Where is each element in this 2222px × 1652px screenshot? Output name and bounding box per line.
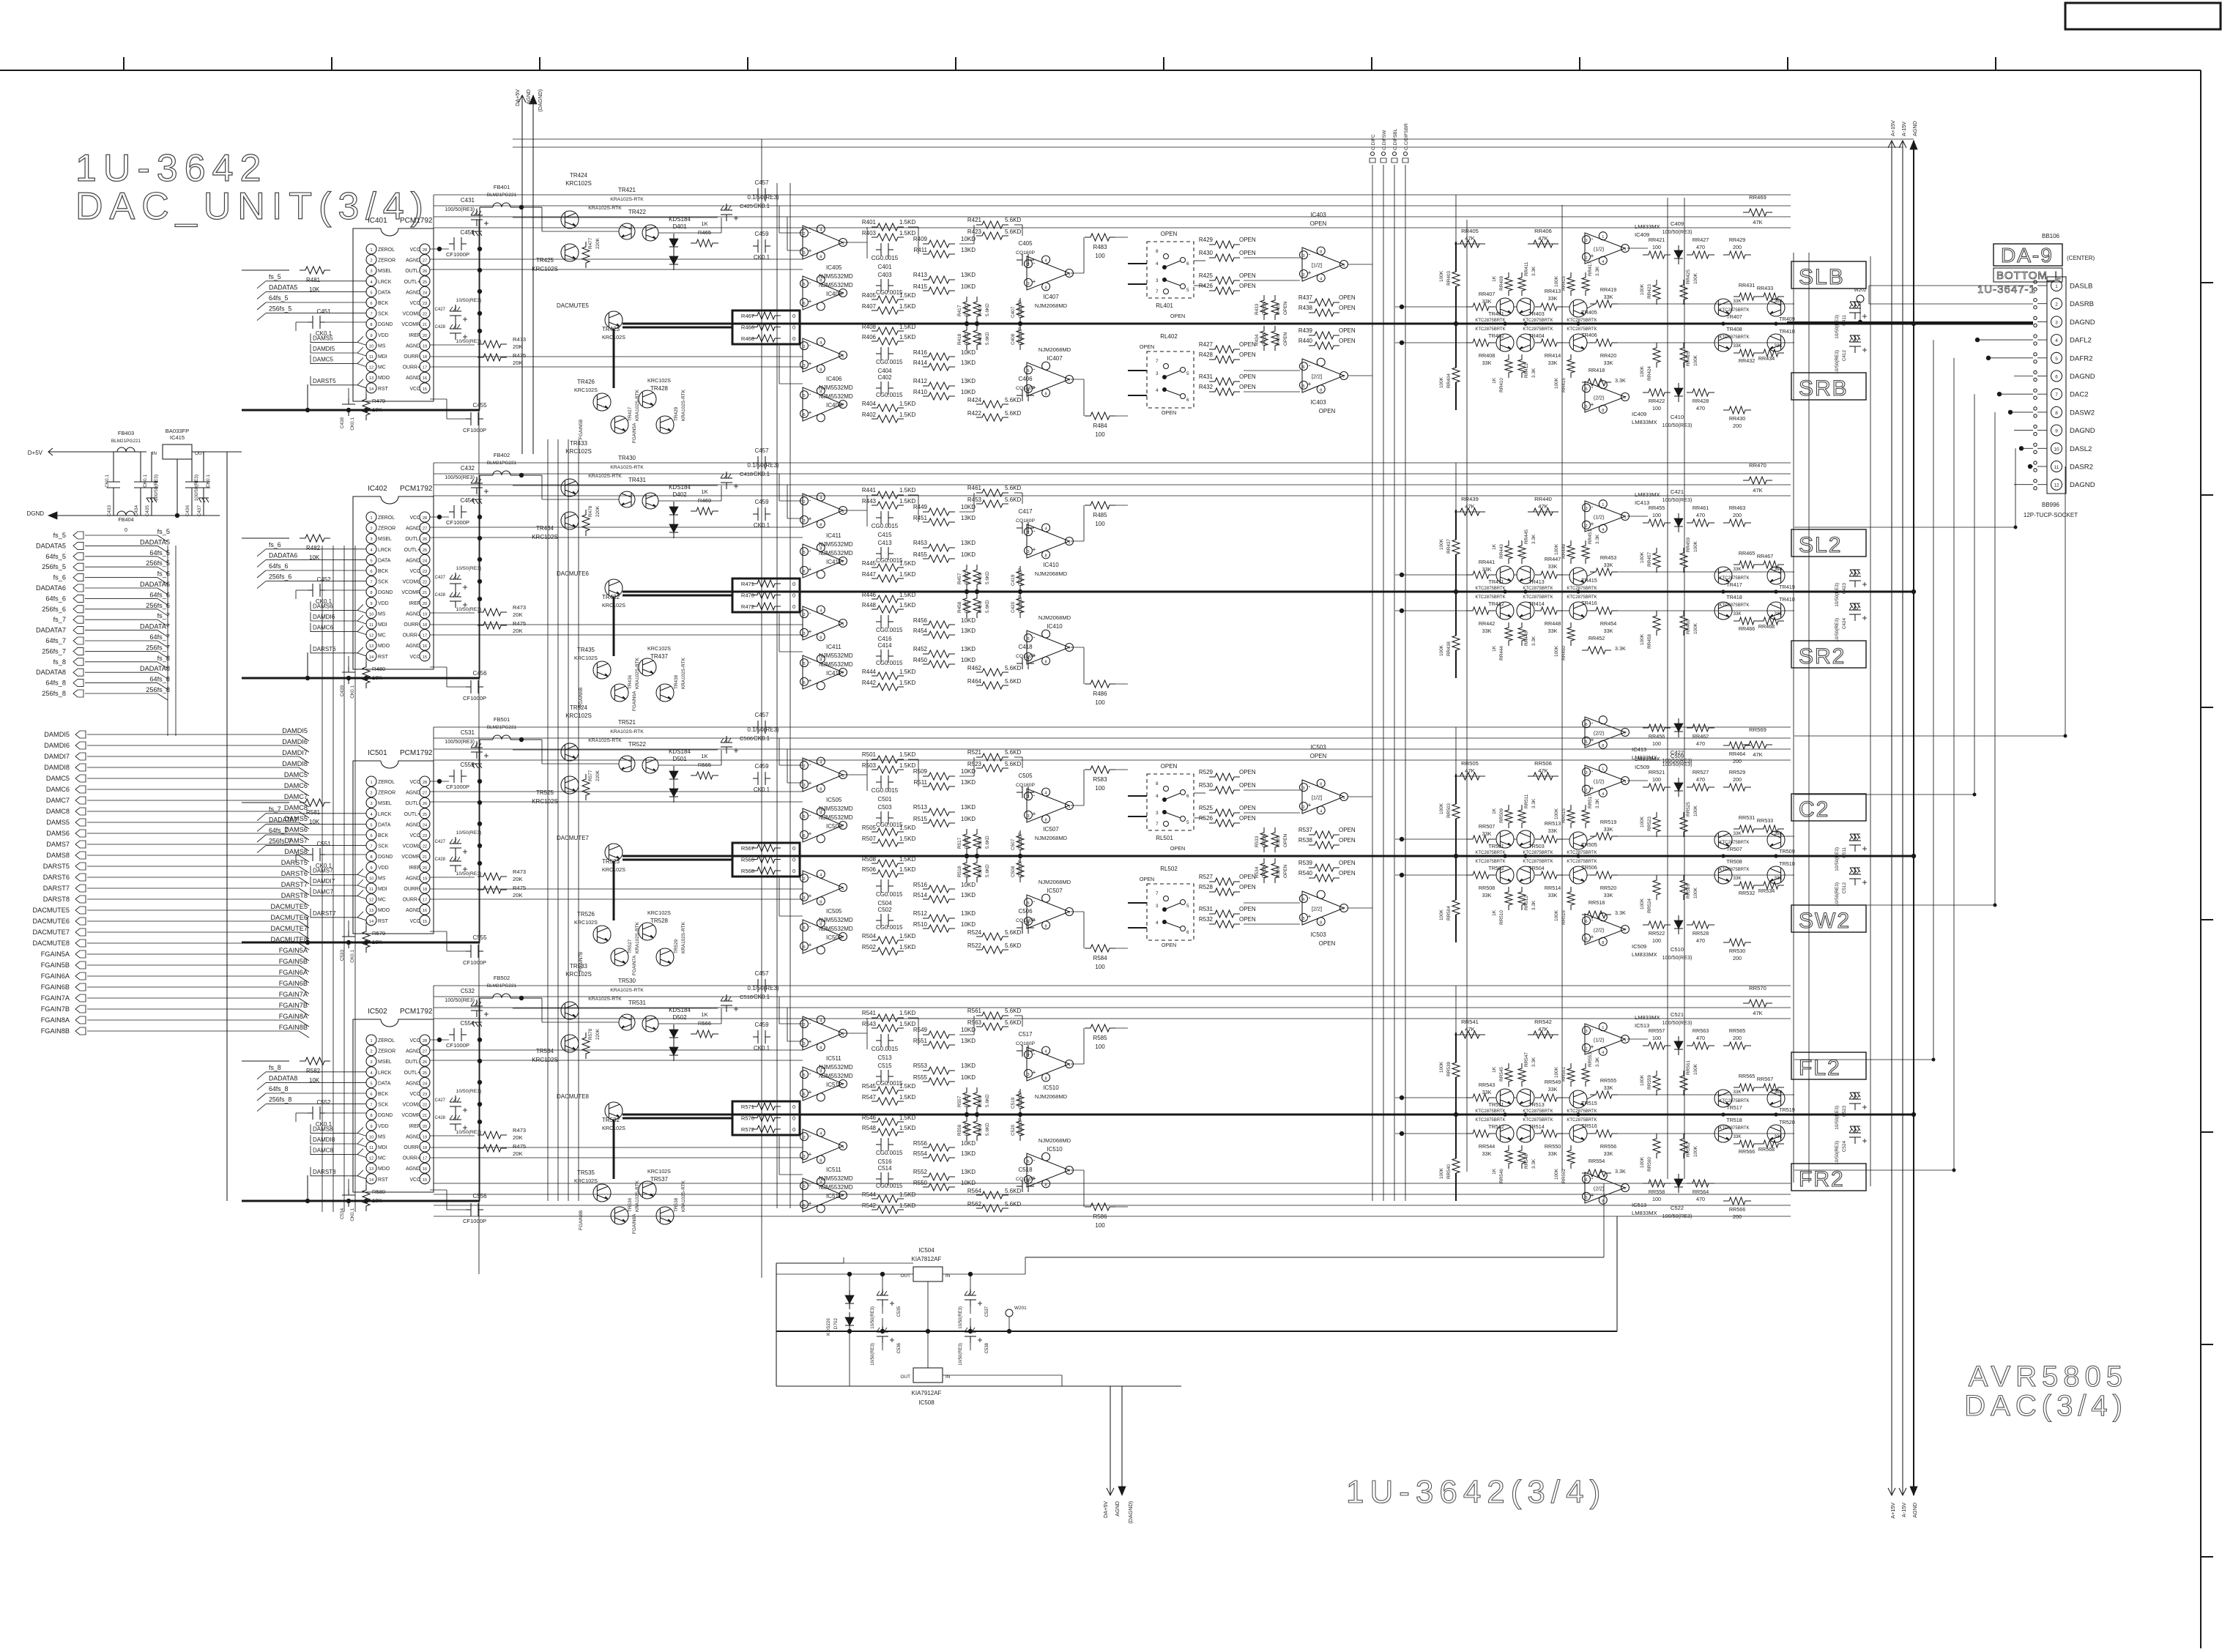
svg-text:R437: R437 (1298, 294, 1313, 301)
svg-text:4: 4 (1602, 1051, 1604, 1055)
svg-text:BCK: BCK (378, 569, 389, 574)
svg-text:100/50(RE3): 100/50(RE3) (445, 474, 475, 480)
svg-text:MC: MC (378, 633, 386, 639)
svg-text:RR508: RR508 (1479, 885, 1495, 891)
svg-text:R461: R461 (967, 485, 982, 491)
svg-text:RR505: RR505 (1461, 760, 1479, 767)
svg-text:R512: R512 (913, 910, 928, 917)
svg-text:5.6KD: 5.6KD (1005, 1008, 1021, 1014)
svg-text:10: 10 (369, 612, 374, 617)
svg-text:1.5KD: 1.5KD (899, 1125, 915, 1131)
svg-text:R462: R462 (967, 665, 982, 671)
svg-text:VCC: VCC (409, 919, 420, 924)
svg-text:FGAIN6B: FGAIN6B (279, 980, 308, 987)
svg-text:20K: 20K (513, 876, 523, 882)
svg-text:C502: C502 (877, 907, 892, 913)
svg-text:26: 26 (423, 802, 427, 806)
svg-text:6: 6 (2055, 375, 2058, 380)
svg-text:DACMUTE6: DACMUTE6 (270, 914, 308, 921)
svg-text:C420: C420 (1011, 601, 1016, 613)
svg-text:TR510: TR510 (1779, 860, 1795, 867)
svg-text:C551: C551 (316, 841, 331, 847)
svg-text:R540: R540 (1298, 870, 1313, 877)
svg-text:RR512: RR512 (1524, 896, 1529, 910)
svg-text:DAMDI8: DAMDI8 (44, 764, 70, 771)
svg-text:R403: R403 (862, 230, 877, 237)
svg-text:RR465: RR465 (1739, 550, 1755, 557)
svg-text:NJM2068MD: NJM2068MD (1038, 879, 1071, 885)
svg-text:BLM21PG221: BLM21PG221 (487, 461, 517, 466)
svg-text:3.3K: 3.3K (1595, 798, 1600, 808)
svg-text:TR524: TR524 (570, 704, 588, 711)
svg-text:TR502: TR502 (1488, 865, 1504, 871)
svg-text:CQ180P: CQ180P (1018, 1117, 1023, 1136)
svg-text:33K: 33K (1548, 628, 1558, 634)
svg-text:RR408: RR408 (1479, 352, 1495, 359)
svg-text:DACMUTE8: DACMUTE8 (32, 940, 70, 947)
svg-text:16: 16 (423, 644, 427, 649)
svg-text:0: 0 (792, 324, 795, 331)
svg-text:R473: R473 (513, 604, 526, 611)
svg-text:R458: R458 (957, 601, 962, 613)
svg-text:33K: 33K (1548, 1086, 1558, 1093)
svg-text:OURR+: OURR+ (403, 633, 420, 639)
svg-text:-: - (809, 874, 811, 881)
svg-text:CF1000P: CF1000P (463, 427, 486, 434)
svg-text:22: 22 (423, 581, 427, 585)
svg-text:FGAIN7B: FGAIN7B (279, 1002, 308, 1009)
svg-text:64fs_6: 64fs_6 (269, 562, 289, 570)
svg-text:1: 1 (1342, 796, 1345, 800)
svg-text:10KD: 10KD (961, 283, 976, 290)
svg-text:-: - (809, 341, 811, 349)
svg-text:8: 8 (370, 855, 372, 860)
svg-text:DAMC5: DAMC5 (46, 775, 70, 782)
svg-text:LM833MX: LM833MX (1632, 419, 1657, 425)
svg-text:2: 2 (370, 792, 372, 796)
svg-text:C428: C428 (435, 857, 446, 862)
svg-text:23: 23 (423, 302, 427, 306)
svg-text:5.6KD: 5.6KD (985, 1123, 990, 1136)
svg-text:RR440: RR440 (1534, 496, 1552, 502)
svg-text:6: 6 (803, 413, 805, 417)
svg-text:DAMS8: DAMS8 (284, 848, 308, 855)
svg-text:8: 8 (820, 255, 822, 259)
svg-text:FGAIN5B: FGAIN5B (579, 420, 584, 439)
svg-text:KTC2875BRTK: KTC2875BRTK (1719, 335, 1749, 340)
svg-text:256fs_7: 256fs_7 (42, 647, 66, 655)
svg-text:C2: C2 (1799, 797, 1829, 822)
svg-text:R451: R451 (913, 515, 928, 521)
svg-text:TR537: TR537 (650, 1176, 669, 1183)
svg-text:0: 0 (792, 1104, 795, 1110)
svg-text:20: 20 (423, 1125, 427, 1129)
svg-text:R563: R563 (967, 1019, 982, 1026)
svg-text:3: 3 (370, 802, 372, 806)
svg-text:DAMDI5: DAMDI5 (44, 731, 70, 738)
svg-text:MDO: MDO (378, 908, 390, 913)
svg-text:-: - (809, 1019, 811, 1027)
svg-text:470: 470 (1696, 1035, 1705, 1041)
svg-text:12: 12 (2054, 483, 2059, 488)
svg-text:DGND: DGND (26, 510, 44, 517)
svg-text:AGND: AGND (406, 1134, 420, 1139)
svg-text:10/50(RE3): 10/50(RE3) (456, 1130, 482, 1135)
svg-text:KRC102S: KRC102S (532, 1057, 558, 1063)
svg-text:DAMDI8: DAMDI8 (282, 760, 308, 767)
svg-text:RR420: RR420 (1600, 352, 1616, 359)
svg-text:-: - (809, 811, 811, 819)
svg-text:R525: R525 (1199, 805, 1214, 811)
svg-text:DAGND: DAGND (2070, 427, 2095, 435)
svg-text:-: - (1309, 250, 1311, 258)
svg-text:CK0.1: CK0.1 (350, 685, 355, 699)
svg-text:R579: R579 (372, 930, 385, 937)
svg-text:2: 2 (803, 232, 805, 237)
svg-text:1.5KD: 1.5KD (899, 680, 915, 686)
svg-text:C432: C432 (461, 465, 475, 472)
svg-text:1.5KD: 1.5KD (899, 1191, 915, 1198)
svg-text:RR421: RR421 (1649, 237, 1665, 243)
svg-text:4: 4 (820, 874, 822, 878)
svg-text:100: 100 (1652, 1196, 1661, 1202)
svg-text:TR536: TR536 (628, 1197, 633, 1212)
svg-text:KRC102S: KRC102S (565, 448, 592, 455)
svg-text:KTC2875BRTK: KTC2875BRTK (1567, 587, 1597, 591)
svg-text:20K: 20K (513, 1150, 523, 1157)
svg-text:R460: R460 (978, 601, 983, 613)
svg-text:RR415: RR415 (1561, 276, 1567, 291)
svg-text:R552: R552 (913, 1169, 928, 1175)
svg-text:1.5KD: 1.5KD (899, 592, 915, 598)
svg-text:1.5KD: 1.5KD (899, 1115, 915, 1121)
svg-text:1.5KD: 1.5KD (899, 401, 915, 407)
svg-text:C410: C410 (1671, 414, 1684, 420)
svg-text:33K: 33K (1548, 360, 1558, 366)
svg-text:OPEN: OPEN (1339, 338, 1356, 344)
svg-text:R459: R459 (978, 573, 983, 584)
svg-text:C524: C524 (1842, 1141, 1847, 1153)
svg-text:RR418: RR418 (1589, 367, 1605, 373)
svg-text:OPEN: OPEN (1283, 332, 1288, 346)
svg-text:DAMDI6: DAMDI6 (282, 738, 308, 745)
svg-text:C436: C436 (185, 505, 190, 517)
svg-text:R481: R481 (306, 277, 321, 283)
svg-text:IC413: IC413 (1632, 746, 1646, 753)
svg-text:5: 5 (1186, 371, 1189, 376)
svg-text:DADATA7: DADATA7 (269, 816, 297, 823)
svg-text:LRCK: LRCK (378, 1071, 392, 1076)
svg-text:3.3K: 3.3K (1531, 900, 1537, 910)
svg-text:DARST8: DARST8 (313, 1169, 336, 1175)
svg-text:OUTL+: OUTL+ (404, 812, 420, 817)
svg-text:-: - (809, 228, 811, 236)
svg-text:(1/2): (1/2) (1594, 1036, 1605, 1043)
svg-text:47K: 47K (1538, 235, 1548, 242)
svg-text:R428: R428 (1199, 351, 1214, 358)
svg-text:DASLB: DASLB (2070, 283, 2092, 291)
svg-text:R407: R407 (862, 303, 877, 310)
svg-text:5: 5 (2055, 357, 2058, 362)
svg-text:OPEN: OPEN (1339, 827, 1356, 833)
svg-text:2: 2 (803, 1023, 805, 1027)
svg-text:RR565: RR565 (1729, 1027, 1745, 1034)
svg-text:DADATA6: DADATA6 (269, 551, 297, 559)
svg-text:AGND: AGND (406, 376, 420, 381)
svg-text:OPEN: OPEN (1239, 237, 1256, 243)
svg-text:7: 7 (841, 292, 844, 297)
svg-text:TR512: TR512 (1488, 1123, 1504, 1130)
svg-text:RR514: RR514 (1545, 885, 1561, 891)
svg-text:TR426: TR426 (577, 379, 595, 385)
svg-text:17: 17 (423, 898, 427, 903)
svg-text:13KD: 13KD (961, 646, 976, 652)
svg-text:CF1000P: CF1000P (446, 251, 469, 258)
svg-text:2: 2 (1585, 1047, 1587, 1052)
svg-text:C521: C521 (1671, 1011, 1684, 1018)
svg-text:3: 3 (803, 364, 805, 368)
svg-text:R541: R541 (862, 1010, 877, 1016)
svg-text:100K: 100K (1693, 805, 1698, 816)
svg-text:AGND: AGND (406, 791, 420, 796)
svg-text:RR543: RR543 (1479, 1082, 1495, 1088)
svg-text:ZEROR: ZEROR (378, 1049, 395, 1054)
svg-text:TR521: TR521 (618, 719, 636, 726)
svg-text:OPEN: OPEN (1310, 753, 1327, 759)
svg-text:TR534: TR534 (536, 1048, 554, 1054)
svg-text:R405: R405 (862, 292, 877, 299)
svg-text:RR448: RR448 (1545, 620, 1561, 627)
svg-text:-: - (1033, 633, 1036, 641)
svg-text:200: 200 (1733, 776, 1742, 783)
svg-text:R420: R420 (978, 333, 983, 345)
svg-text:(1/2): (1/2) (1594, 778, 1605, 784)
svg-text:KTC2875BRTK: KTC2875BRTK (1475, 860, 1505, 864)
svg-text:6: 6 (1302, 898, 1304, 902)
svg-text:RR564: RR564 (1692, 1188, 1709, 1195)
svg-text:R560: R560 (978, 1124, 983, 1136)
svg-text:R421: R421 (967, 217, 982, 223)
svg-text:R553: R553 (913, 1063, 928, 1069)
svg-text:1K: 1K (1492, 909, 1497, 916)
svg-text:TR522: TR522 (628, 741, 647, 748)
svg-text:R501: R501 (862, 751, 877, 758)
svg-text:33K: 33K (1774, 343, 1783, 349)
svg-text:TR411: TR411 (1488, 578, 1504, 585)
svg-text:C407: C407 (1011, 306, 1016, 318)
svg-text:AGND: AGND (406, 290, 420, 295)
svg-text:A+15V: A+15V (1890, 120, 1896, 136)
svg-text:RR461: RR461 (1692, 505, 1709, 511)
svg-text:C510: C510 (1671, 946, 1684, 953)
svg-text:5.6KD: 5.6KD (965, 836, 970, 849)
svg-text:C506: C506 (740, 735, 753, 742)
svg-text:6: 6 (1027, 1179, 1029, 1183)
svg-text:KRA102S-RTK: KRA102S-RTK (588, 474, 622, 479)
svg-text:2: 2 (1585, 256, 1587, 261)
svg-text:7: 7 (1068, 647, 1070, 651)
svg-text:C451: C451 (316, 308, 331, 315)
svg-text:AGND: AGND (406, 1167, 420, 1172)
svg-text:KRC102S: KRC102S (574, 1177, 598, 1184)
svg-text:1K: 1K (1492, 1066, 1497, 1073)
svg-text:RR422: RR422 (1649, 398, 1665, 404)
svg-text:1: 1 (1602, 1026, 1604, 1030)
svg-text:100: 100 (1652, 512, 1661, 518)
svg-text:-: - (1591, 503, 1594, 510)
svg-text:DA+5V: DA+5V (1102, 1501, 1109, 1518)
svg-text:1: 1 (370, 248, 372, 253)
svg-text:RR460: RR460 (1686, 619, 1691, 634)
svg-text:1K: 1K (1492, 543, 1497, 550)
svg-text:0: 0 (792, 592, 795, 599)
svg-text:CG0.0015: CG0.0015 (876, 359, 903, 365)
svg-text:IC411: IC411 (826, 644, 841, 650)
svg-text:AVR5805: AVR5805 (1969, 1361, 2128, 1393)
svg-text:OPEN: OPEN (1262, 834, 1267, 847)
svg-text:OPEN: OPEN (1140, 876, 1154, 882)
svg-text:RR403: RR403 (1446, 271, 1452, 286)
svg-text:R436: R436 (1276, 334, 1281, 346)
svg-text:R441: R441 (862, 487, 877, 494)
svg-text:FGAIN8B: FGAIN8B (41, 1027, 70, 1035)
svg-text:3: 3 (1027, 814, 1029, 819)
svg-text:RR560: RR560 (1647, 1157, 1652, 1172)
svg-text:256fs_6: 256fs_6 (42, 606, 66, 613)
svg-text:33K: 33K (1548, 1150, 1558, 1157)
svg-text:RR515: RR515 (1561, 808, 1567, 823)
svg-text:5.6KD: 5.6KD (1005, 1019, 1021, 1026)
svg-text:RR407: RR407 (1479, 291, 1495, 297)
svg-text:13: 13 (369, 644, 374, 649)
svg-text:C505: C505 (1018, 773, 1033, 779)
svg-text:C425: C425 (740, 203, 753, 209)
svg-text:OPEN: OPEN (1339, 294, 1356, 301)
svg-text:(DAGND): (DAGND) (1127, 1501, 1134, 1524)
svg-text:C457: C457 (754, 712, 769, 718)
svg-text:TR503: TR503 (1528, 843, 1545, 849)
svg-text:-: - (1591, 719, 1594, 726)
svg-text:5.6KD: 5.6KD (1005, 496, 1021, 503)
svg-text:5.6KD: 5.6KD (1005, 942, 1021, 949)
svg-text:+: + (808, 942, 811, 949)
svg-text:1.5KD: 1.5KD (899, 292, 915, 299)
svg-text:DAMDI8: DAMDI8 (313, 1136, 335, 1143)
svg-text:6: 6 (1027, 388, 1029, 392)
svg-text:C517: C517 (1018, 1031, 1033, 1038)
svg-text:RST: RST (378, 1177, 389, 1183)
svg-text:AGND: AGND (406, 876, 420, 881)
svg-text:RR550: RR550 (1545, 1143, 1561, 1150)
svg-text:C419: C419 (1011, 574, 1016, 586)
svg-text:220K: 220K (595, 505, 601, 517)
svg-text:5: 5 (803, 394, 805, 398)
svg-text:RR458: RR458 (1647, 634, 1652, 649)
svg-text:7: 7 (1624, 396, 1626, 401)
svg-text:3: 3 (1027, 282, 1029, 286)
svg-text:CG0.0015: CG0.0015 (876, 924, 903, 931)
svg-text:5.6KD: 5.6KD (985, 1094, 990, 1107)
svg-text:RL501: RL501 (1156, 835, 1173, 841)
svg-text:CG0.0015: CG0.0015 (876, 891, 903, 898)
svg-text:CG0.0015: CG0.0015 (872, 787, 899, 794)
svg-text:33K: 33K (1604, 360, 1613, 366)
svg-text:TR436: TR436 (628, 674, 633, 689)
svg-text:1U-3642(3/4): 1U-3642(3/4) (1346, 1474, 1606, 1510)
svg-text:5.6KD: 5.6KD (965, 1094, 970, 1107)
svg-text:CQ180P: CQ180P (1016, 518, 1036, 524)
svg-text:IC402: IC402 (368, 485, 387, 493)
svg-text:100K: 100K (1640, 898, 1645, 909)
svg-text:OPEN: OPEN (1283, 834, 1288, 847)
svg-text:R557: R557 (957, 1095, 962, 1107)
svg-text:23: 23 (423, 834, 427, 838)
svg-text:ZEROL: ZEROL (378, 780, 395, 785)
svg-text:-: - (1033, 527, 1036, 535)
svg-text:33K: 33K (1548, 295, 1558, 302)
svg-text:TR431: TR431 (628, 477, 647, 483)
svg-text:RR419: RR419 (1600, 286, 1616, 293)
svg-text:C515: C515 (877, 1063, 892, 1069)
svg-text:KRA102S-RTK: KRA102S-RTK (681, 1180, 686, 1212)
svg-text:5: 5 (370, 559, 372, 563)
svg-text:100/50(RE3): 100/50(RE3) (1662, 1019, 1692, 1026)
svg-text:NJM2068MD: NJM2068MD (1035, 570, 1068, 577)
svg-text:33K: 33K (1733, 611, 1742, 617)
svg-text:4: 4 (1602, 792, 1604, 797)
svg-text:3.3K: 3.3K (1531, 266, 1537, 276)
svg-text:1: 1 (1624, 1038, 1626, 1043)
svg-text:7: 7 (2055, 392, 2058, 398)
svg-text:C424: C424 (1842, 618, 1847, 630)
svg-text:3: 3 (1302, 786, 1304, 791)
svg-text:DAMC7: DAMC7 (313, 889, 334, 896)
svg-text:25: 25 (423, 280, 427, 285)
svg-text:13KD: 13KD (961, 540, 976, 546)
svg-text:OPEN: OPEN (1262, 865, 1267, 878)
svg-text:TR413: TR413 (1528, 578, 1545, 585)
svg-text:C408: C408 (1011, 333, 1016, 345)
svg-text:5: 5 (1027, 637, 1029, 641)
svg-text:CF1000P: CF1000P (446, 784, 469, 790)
svg-text:47K: 47K (1538, 767, 1548, 774)
svg-text:17: 17 (423, 1157, 427, 1161)
svg-text:10/50(RE3): 10/50(RE3) (1835, 882, 1840, 907)
svg-text:3: 3 (1027, 1073, 1029, 1077)
svg-text:12: 12 (369, 1157, 374, 1161)
svg-text:CK0.1: CK0.1 (350, 1208, 355, 1221)
svg-text:PCM1792: PCM1792 (400, 1008, 433, 1016)
svg-text:100: 100 (1652, 405, 1661, 412)
svg-text:+: + (808, 248, 811, 255)
svg-text:33K: 33K (1774, 876, 1783, 881)
svg-text:DACMUTE7: DACMUTE7 (557, 835, 590, 841)
svg-text:5.6KD: 5.6KD (1005, 410, 1021, 417)
svg-text:TR421: TR421 (618, 187, 636, 193)
svg-text:8: 8 (820, 811, 822, 816)
svg-text:220K: 220K (595, 1028, 601, 1040)
svg-text:RR539: RR539 (1446, 1062, 1452, 1076)
svg-text:R530: R530 (1199, 782, 1214, 789)
svg-text:8: 8 (1156, 781, 1159, 786)
svg-text:100/50(RE3): 100/50(RE3) (1662, 954, 1692, 961)
svg-text:(1/2): (1/2) (1594, 513, 1605, 520)
svg-text:-: - (1591, 1175, 1594, 1182)
svg-text:2: 2 (2055, 302, 2058, 308)
svg-text:1: 1 (1342, 264, 1345, 268)
svg-text:2: 2 (1302, 273, 1304, 278)
svg-text:IC407: IC407 (1043, 294, 1059, 300)
